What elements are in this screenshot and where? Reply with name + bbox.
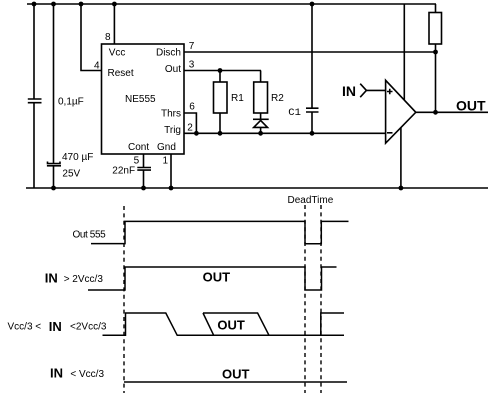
svg-text:3: 3 — [189, 60, 195, 71]
svg-text:22nF: 22nF — [112, 166, 135, 177]
svg-text:Cont: Cont — [128, 142, 149, 153]
svg-text:1: 1 — [163, 156, 169, 167]
svg-text:Disch: Disch — [156, 48, 181, 59]
svg-text:6: 6 — [189, 102, 195, 113]
svg-text:OUT: OUT — [203, 270, 231, 285]
svg-text:DeadTime: DeadTime — [288, 195, 334, 206]
svg-text:Trig: Trig — [164, 125, 181, 136]
svg-text:8: 8 — [105, 32, 111, 43]
svg-text:470 µF: 470 µF — [62, 152, 93, 163]
svg-text:Reset: Reset — [108, 68, 134, 79]
svg-text:IN: IN — [50, 365, 63, 380]
svg-text:R2: R2 — [271, 93, 284, 104]
svg-text:25V: 25V — [62, 169, 80, 180]
svg-text:IN: IN — [49, 319, 62, 334]
svg-text:IN: IN — [45, 270, 58, 285]
svg-text:4: 4 — [94, 61, 100, 72]
svg-text:Vcc/3 <: Vcc/3 < — [8, 322, 42, 333]
svg-text:IN: IN — [342, 83, 356, 99]
svg-text:< Vcc/3: < Vcc/3 — [70, 369, 104, 380]
svg-text:OUT: OUT — [217, 318, 245, 333]
svg-text:> 2Vcc/3: > 2Vcc/3 — [64, 274, 104, 285]
svg-text:2: 2 — [187, 122, 193, 133]
svg-text:Out 555: Out 555 — [73, 230, 107, 241]
svg-text:OUT: OUT — [456, 97, 486, 113]
svg-text:Thrs: Thrs — [161, 109, 181, 120]
svg-text:<2Vcc/3: <2Vcc/3 — [70, 322, 107, 333]
svg-text:R1: R1 — [231, 93, 244, 104]
svg-text:0,1µF: 0,1µF — [58, 97, 84, 108]
svg-text:Vcc: Vcc — [109, 48, 126, 59]
svg-text:C1: C1 — [288, 107, 301, 119]
svg-text:Gnd: Gnd — [157, 142, 176, 153]
svg-text:NE555: NE555 — [125, 94, 156, 105]
svg-text:Out: Out — [165, 64, 181, 75]
svg-text:OUT: OUT — [222, 366, 250, 381]
svg-text:7: 7 — [189, 41, 195, 52]
